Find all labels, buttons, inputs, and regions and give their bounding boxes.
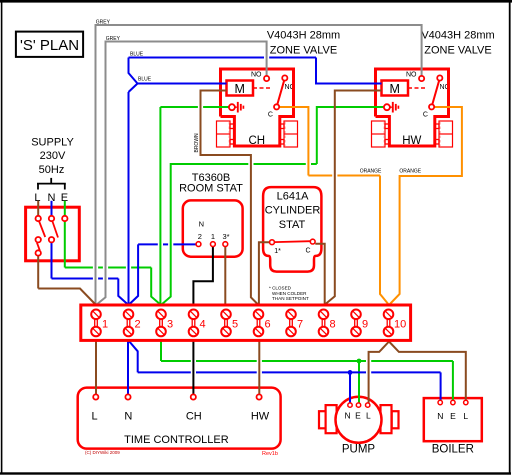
svg-text:NO: NO <box>251 72 262 79</box>
svg-text:10: 10 <box>394 319 406 331</box>
svg-text:L641A: L641A <box>277 190 309 202</box>
svg-text:CYLINDER: CYLINDER <box>265 205 321 217</box>
svg-text:3*: 3* <box>222 232 229 241</box>
svg-text:THAN SETPOINT: THAN SETPOINT <box>272 296 309 301</box>
svg-text:6: 6 <box>265 319 271 331</box>
svg-text:CH: CH <box>186 410 202 422</box>
svg-text:L: L <box>366 410 371 420</box>
svg-text:ZONE VALVE: ZONE VALVE <box>270 45 337 57</box>
svg-text:HW: HW <box>251 410 270 422</box>
svg-text:9: 9 <box>362 319 368 331</box>
svg-text:5: 5 <box>232 319 238 331</box>
svg-text:N: N <box>437 411 443 421</box>
svg-text:PUMP: PUMP <box>342 443 376 455</box>
svg-text:7: 7 <box>297 319 303 331</box>
svg-text:1: 1 <box>102 319 108 331</box>
svg-text:C: C <box>268 111 273 118</box>
svg-text:'S' PLAN: 'S' PLAN <box>20 37 79 54</box>
svg-text:2: 2 <box>135 319 141 331</box>
svg-text:Rev1b: Rev1b <box>262 451 278 457</box>
svg-text:(C) DIYWiki 2009: (C) DIYWiki 2009 <box>85 450 120 455</box>
svg-text:4: 4 <box>200 319 206 331</box>
svg-text:L: L <box>463 411 468 421</box>
svg-text:1*: 1* <box>274 248 281 255</box>
svg-text:C: C <box>305 248 310 255</box>
svg-text:BROWN: BROWN <box>194 133 200 153</box>
svg-text:3: 3 <box>167 319 173 331</box>
svg-text:C: C <box>423 111 428 118</box>
svg-text:N: N <box>124 410 132 422</box>
svg-text:M: M <box>389 82 399 96</box>
svg-text:E: E <box>355 410 361 420</box>
svg-text:V4043H 28mm: V4043H 28mm <box>421 30 494 42</box>
svg-text:NO: NO <box>406 72 417 79</box>
svg-text:2: 2 <box>198 232 202 241</box>
svg-text:E: E <box>450 411 456 421</box>
svg-text:50Hz: 50Hz <box>39 164 65 176</box>
svg-text:STAT: STAT <box>279 219 306 231</box>
svg-text:ZONE VALVE: ZONE VALVE <box>424 45 491 57</box>
svg-text:N: N <box>345 410 351 420</box>
svg-text:L: L <box>91 410 97 422</box>
svg-text:N: N <box>199 220 204 229</box>
svg-text:ORANGE: ORANGE <box>360 168 382 174</box>
svg-text:ORANGE: ORANGE <box>399 169 421 175</box>
svg-text:BOILER: BOILER <box>432 444 474 456</box>
svg-text:SUPPLY: SUPPLY <box>31 137 74 149</box>
svg-text:* CLOSED: * CLOSED <box>269 286 292 291</box>
svg-text:BLUE: BLUE <box>138 77 152 83</box>
svg-text:230V: 230V <box>40 150 66 162</box>
svg-text:M: M <box>234 82 244 96</box>
svg-text:ROOM STAT: ROOM STAT <box>179 183 243 195</box>
svg-text:8: 8 <box>330 319 336 331</box>
svg-text:TIME CONTROLLER: TIME CONTROLLER <box>124 434 229 446</box>
svg-text:V4043H 28mm: V4043H 28mm <box>267 30 340 42</box>
svg-text:1: 1 <box>211 232 215 241</box>
svg-text:WHEN COLDER: WHEN COLDER <box>272 291 307 296</box>
